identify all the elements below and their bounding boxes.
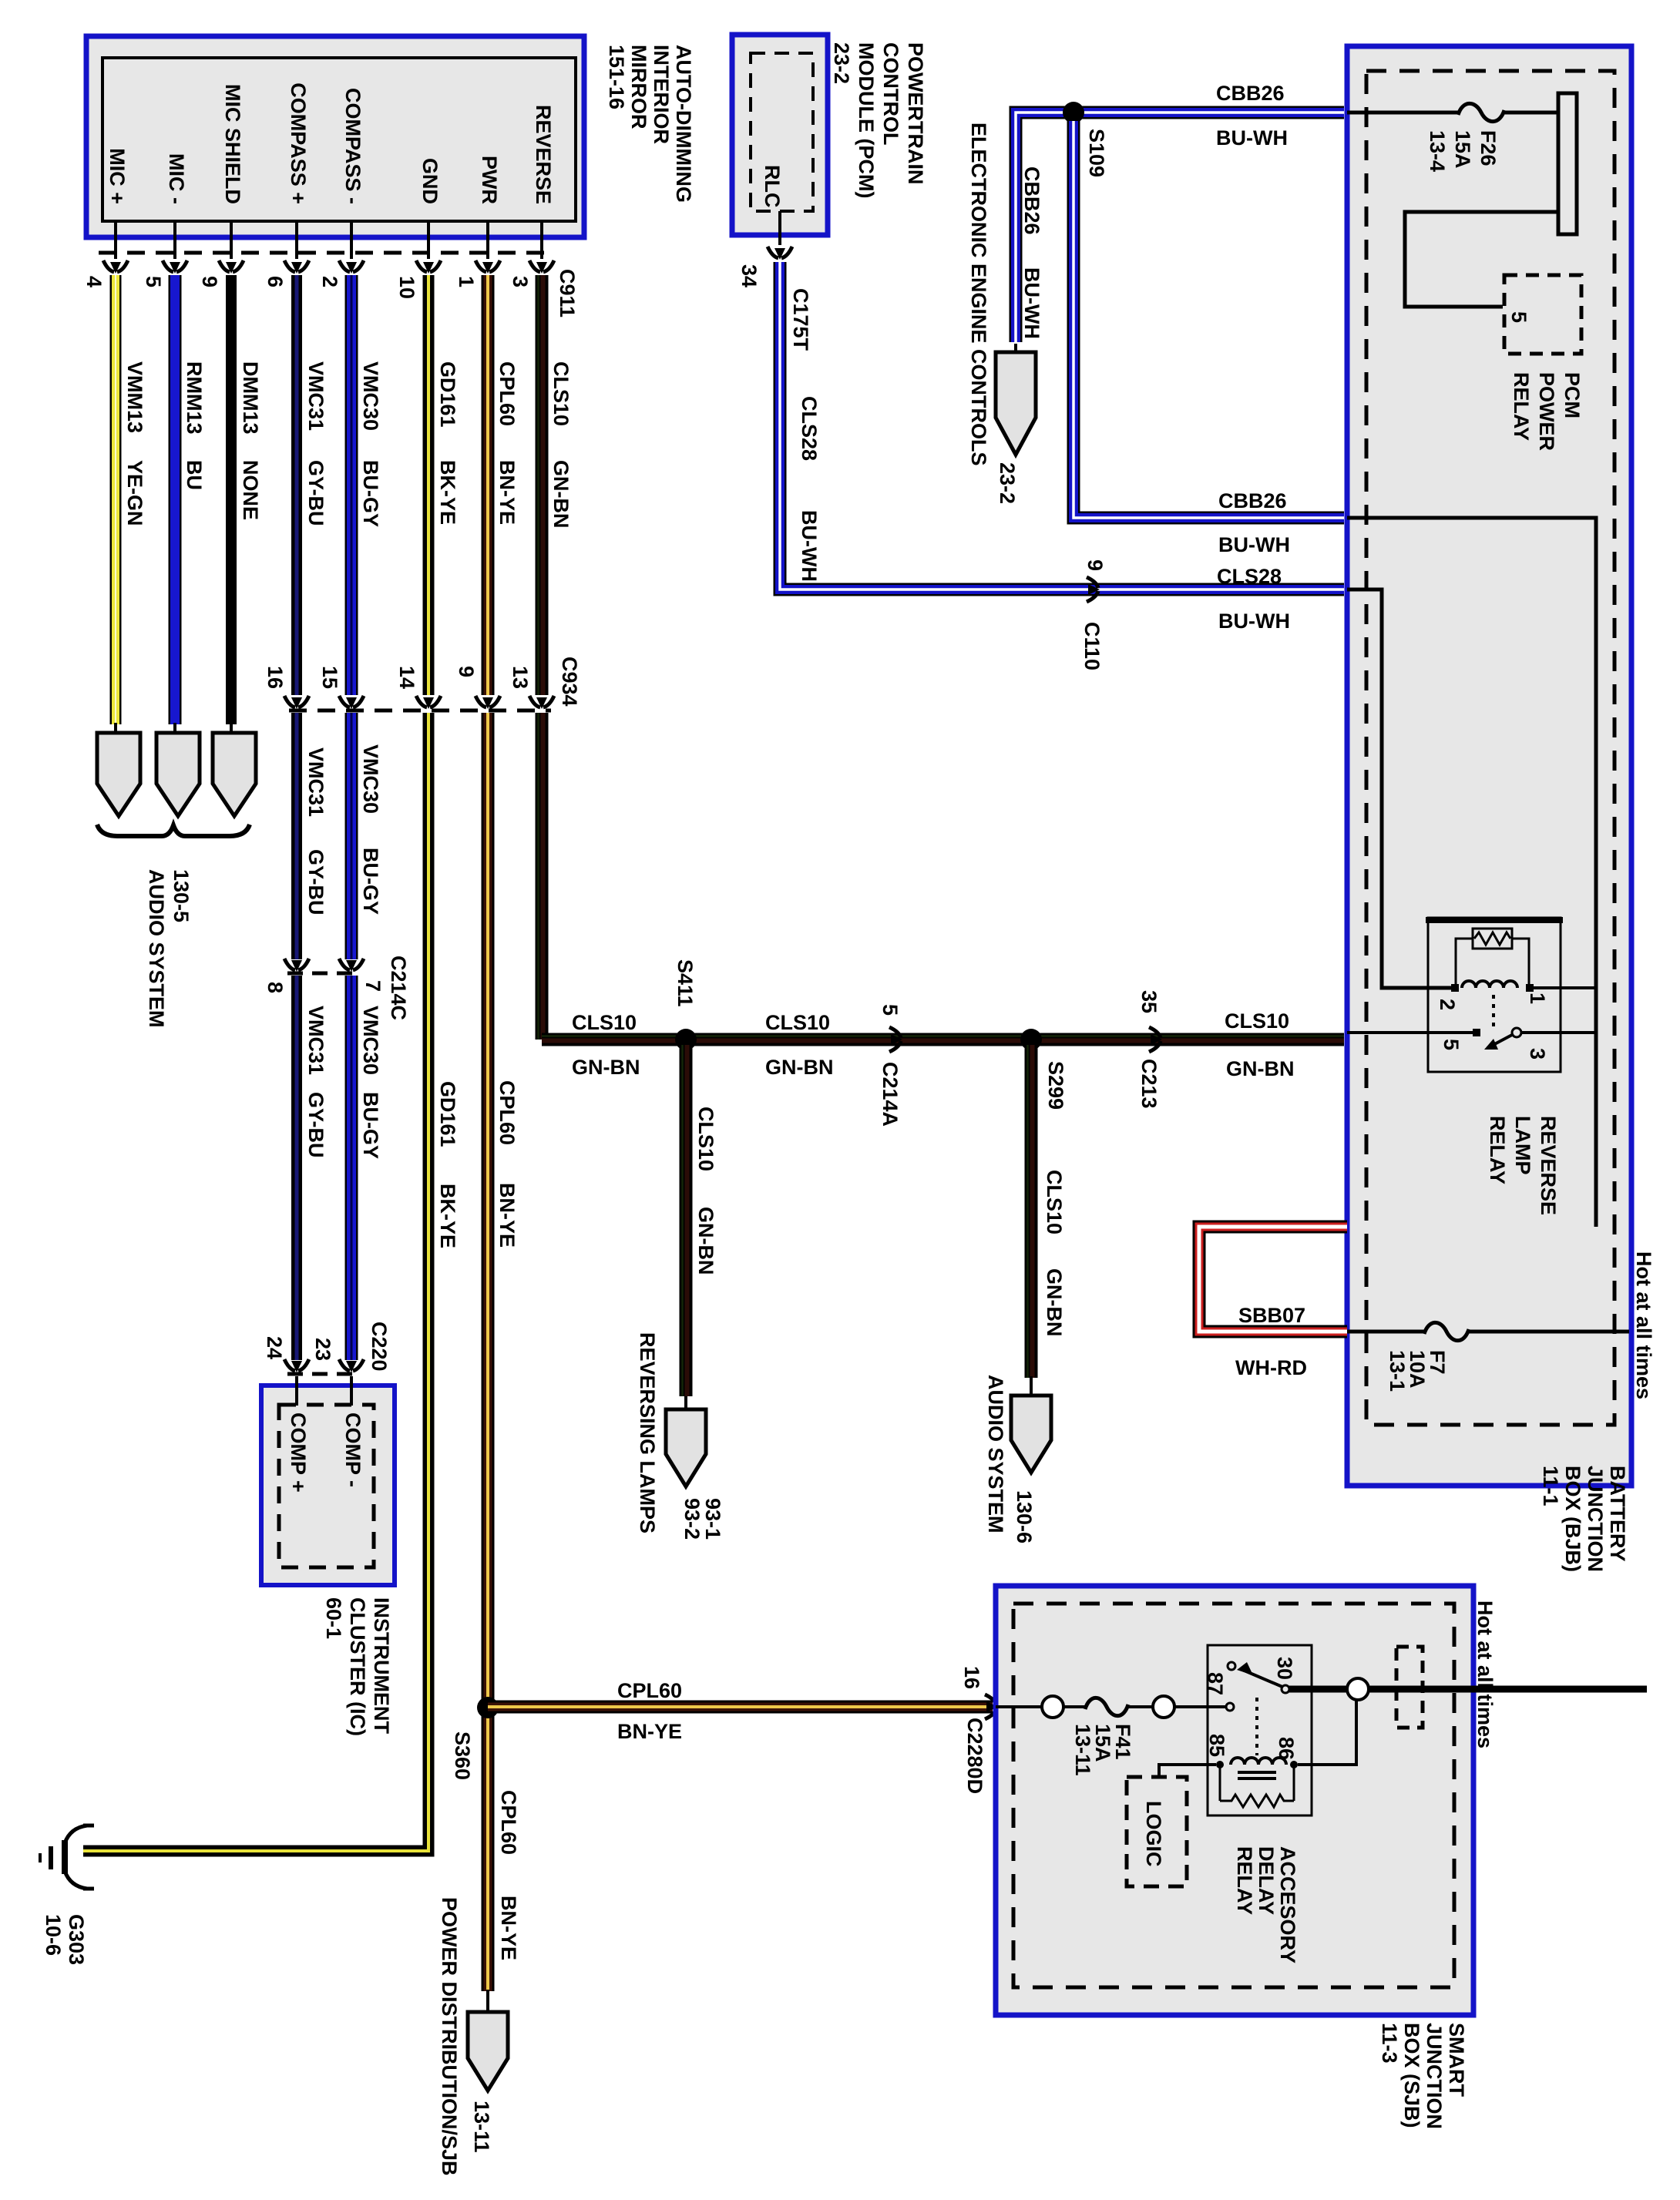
svg-text:CPL60: CPL60 [497,1790,520,1855]
svg-text:RLC: RLC [761,165,784,208]
connector arrow C934 wire x=633 [475,696,500,707]
terminal to audio system (VMM13) [97,733,140,816]
svg-text:WH-RD: WH-RD [1235,1356,1307,1379]
LOGIC dashed box [1127,1777,1187,1886]
ADR switch [1226,1703,1234,1711]
module box: auto-dimming interior mirror [86,36,584,237]
svg-text:GD161: GD161 [436,361,459,428]
svg-text:GN-BN: GN-BN [549,460,573,529]
wire CBB26 BU-WH second run from S109 to BJB [1074,121,1344,518]
svg-text:BOX (SJB): BOX (SJB) [1400,2023,1423,2128]
svg-text:CPL60: CPL60 [496,1080,519,1145]
svg-text:87: 87 [1204,1672,1227,1695]
svg-text:RMM13: RMM13 [183,361,206,435]
svg-text:11-1: 11-1 [1539,1466,1562,1506]
wire GD161 run to ground G303 [83,1845,428,1851]
svg-text:10: 10 [395,276,418,299]
svg-text:CBB26: CBB26 [1218,489,1287,512]
mirror pin stub wire x=227 [173,221,176,259]
svg-text:CLS28: CLS28 [1217,565,1282,588]
svg-text:AUDIO SYSTEM: AUDIO SYSTEM [984,1375,1007,1533]
svg-text:30: 30 [1273,1657,1296,1680]
wire VMC31 seg3 [291,976,302,1360]
svg-text:34: 34 [738,264,761,287]
bus bar [1558,93,1577,234]
IC dashed internal box [279,1405,374,1567]
svg-text:3: 3 [1526,1048,1549,1060]
svg-text:BU: BU [183,460,206,490]
wire CLS10 horizontal run to BJB [542,1033,1344,1046]
svg-text:BU-WH: BU-WH [1218,610,1290,633]
connector arrow C911 pin wire x=300 [219,260,244,272]
lead [684,1396,687,1410]
BJB internal wire F7 to hot bus [1469,1330,1629,1334]
svg-text:BN-YE: BN-YE [496,460,519,525]
svg-text:5: 5 [1440,1039,1463,1050]
SJB eyelet 3 [1347,1678,1369,1700]
SJB internal wire F41 to relay 87 [1128,1705,1227,1708]
svg-text:130-5: 130-5 [170,869,193,922]
svg-text:23-2: 23-2 [996,462,1019,504]
PCM power relay dashed box [1504,275,1581,354]
BJB internal wire CLS28 to relay coil pin 2 [1347,589,1452,988]
svg-text:BU-WH: BU-WH [798,510,821,582]
PCM output stub [778,211,781,245]
svg-text:RELAY: RELAY [1510,372,1533,441]
relay actuator dotted link [1492,995,1495,1028]
svg-text:60-1: 60-1 [322,1597,345,1639]
svg-text:11-3: 11-3 [1378,2023,1401,2064]
svg-text:LOGIC: LOGIC [1142,1801,1165,1867]
svg-text:VMM13: VMM13 [123,361,146,433]
connector arrow C911 pin wire x=703 [529,260,554,272]
lead to EEC terminal [1014,344,1017,353]
connector arrow C214C wire VMC30 [339,959,364,970]
connector arrow C911 pin wire x=556 [416,260,441,272]
ADR actuator dotted link [1255,1698,1258,1755]
svg-text:GY-BU: GY-BU [304,849,328,915]
connector C214C dashed line [287,972,361,976]
svg-text:MIRROR: MIRROR [627,45,650,129]
svg-text:85: 85 [1205,1734,1228,1757]
svg-text:CLS10: CLS10 [694,1107,717,1171]
connector arrow C214C wire VMC31 [284,959,309,970]
SJB eyelet 1 [1042,1696,1063,1718]
wire CLS10 seg2 [536,713,549,1040]
BJB dashed internal border [1366,71,1614,1425]
svg-text:BU-WH: BU-WH [1216,126,1288,149]
wire CLS28 BU-WH from PCM to BJB [780,262,1344,589]
svg-text:GN-BN: GN-BN [1226,1057,1295,1080]
svg-text:1: 1 [1526,993,1549,1004]
svg-text:VMC31: VMC31 [304,747,328,817]
svg-text:MIC +: MIC + [106,148,129,204]
svg-text:CPL60: CPL60 [617,1679,682,1702]
svg-text:POWER DISTRIBUTION/SJB: POWER DISTRIBUTION/SJB [438,1897,461,2176]
junction S360 [477,1697,499,1718]
wire GD161 BK-YE seg1 (pin 10) [423,275,435,695]
PCM RLC dashed box [751,53,813,211]
BJB internal wire CBB26 feed to reverse lamp relay [1347,518,1596,1227]
SJB output connector dashed [1396,1647,1423,1728]
svg-text:COMPASS +: COMPASS + [287,82,310,204]
BJB internal wire SBB07 to F7 [1347,1330,1424,1334]
mirror pin stub wire x=150 [114,221,117,259]
module box: powertrain control module (PCM) [732,35,828,235]
svg-text:INTERIOR: INTERIOR [650,45,673,144]
terminal to audio system (DMM13) [213,733,256,816]
junction S299 [1020,1029,1042,1050]
svg-text:MODULE (PCM): MODULE (PCM) [855,42,878,198]
SJB dashed internal border [1013,1604,1454,1987]
terminal to electronic engine controls [996,352,1036,455]
relay pin3 wire [1521,1031,1596,1034]
connector arrow C911 pin wire x=150 [103,260,128,272]
IC lead COMP+ [295,1376,298,1406]
svg-text:DMM13: DMM13 [239,361,262,435]
svg-text:LAMP: LAMP [1511,1116,1534,1175]
svg-text:CBB26: CBB26 [1020,166,1043,235]
svg-text:9: 9 [1084,559,1107,571]
svg-text:151-16: 151-16 [605,45,628,109]
wire VMC31 GY-BU seg1 (pin 6) [291,275,302,695]
svg-text:RELAY: RELAY [1486,1116,1509,1184]
connector C220 dashed line [287,1372,361,1376]
connector arrow C175T [768,247,792,258]
connector arrow C911 pin wire x=227 [163,260,187,272]
svg-text:JUNCTION: JUNCTION [1423,2023,1446,2129]
svg-text:ACCESORY: ACCESORY [1276,1846,1299,1963]
svg-text:GY-BU: GY-BU [304,1092,328,1158]
svg-text:14: 14 [395,666,418,689]
svg-text:PWR: PWR [478,156,501,204]
svg-text:CONTROL: CONTROL [879,42,902,145]
svg-text:BATTERY: BATTERY [1606,1466,1629,1562]
terminal to audio system (CLS10) [1011,1396,1051,1473]
svg-text:MIC -: MIC - [165,153,188,204]
connector arrow C911 pin wire x=633 [475,260,500,272]
SJB internal wire C2280D to F41 [996,1705,1085,1708]
svg-text:BU-WH: BU-WH [1020,267,1043,339]
wire VMM13 YE-GN (pin 4) [110,275,122,724]
wire VMC31 seg2 [291,713,302,959]
svg-text:PCM: PCM [1561,372,1584,418]
ADR resistor [1220,1768,1294,1801]
wire CPL60 BN-YE seg1 (pin 1) [482,275,495,695]
svg-text:DELAY: DELAY [1255,1846,1278,1915]
lead to terminal VMM13 [114,723,117,735]
svg-text:2: 2 [1436,999,1459,1010]
svg-text:CLS28: CLS28 [798,396,821,461]
relay suppression resistor [1473,929,1512,949]
svg-text:GN-BN: GN-BN [765,1056,834,1079]
svg-text:5: 5 [142,276,165,287]
connector arrow C214A [889,1027,901,1052]
relay: reverse lamp relay [1428,918,1561,1072]
terminal to power distribution/SJB [468,2012,508,2091]
svg-text:COMP -: COMP - [341,1412,365,1487]
svg-text:13-11: 13-11 [1071,1724,1094,1776]
svg-text:93-2: 93-2 [680,1498,704,1540]
mirror pin stub wire x=633 [486,221,489,259]
mirror pin stub wire x=703 [540,221,543,259]
svg-text:MIC SHIELD: MIC SHIELD [221,84,244,204]
svg-text:Hot at all times: Hot at all times [1632,1251,1655,1399]
svg-text:BK-YE: BK-YE [436,1184,459,1248]
svg-text:BU-GY: BU-GY [359,460,382,527]
svg-text:C175T: C175T [789,288,812,351]
svg-text:93-1: 93-1 [701,1498,724,1540]
svg-text:CLS10: CLS10 [549,361,573,426]
svg-text:BU-WH: BU-WH [1218,533,1290,556]
connector C934 dashed line [289,709,551,713]
fuse F41 15A [1085,1698,1128,1715]
connector arrow C911 pin wire x=456 [339,260,364,272]
svg-text:5: 5 [879,1004,902,1016]
svg-text:35: 35 [1137,990,1161,1013]
junction S109 [1063,102,1084,123]
svg-text:Hot at all times: Hot at all times [1473,1600,1497,1748]
svg-text:BN-YE: BN-YE [617,1720,682,1743]
svg-text:9: 9 [198,276,221,287]
svg-text:8: 8 [264,982,287,993]
wire GD161 seg2 [423,713,435,1851]
wire VMC30 seg2 [345,713,358,959]
connector arrow C220 wire VMC30 [339,1359,364,1371]
mirror pin stub wire x=385 [295,221,298,259]
box: smart junction box (SJB) [996,1586,1473,2015]
svg-text:3: 3 [509,276,532,287]
svg-text:NONE: NONE [239,460,262,520]
svg-text:BU-GY: BU-GY [359,1092,382,1159]
svg-text:5: 5 [1507,311,1530,323]
svg-text:C934: C934 [558,657,581,707]
connector arrow C220 wire VMC31 [284,1359,309,1371]
mirror pin stub wire x=556 [427,221,430,259]
wire CPL60 seg2 [482,713,495,1991]
svg-text:CLS10: CLS10 [1225,1009,1289,1033]
svg-text:COMP +: COMP + [287,1412,310,1493]
svg-text:CLS10: CLS10 [765,1011,830,1034]
svg-text:CBB26: CBB26 [1216,82,1285,105]
svg-text:16: 16 [264,666,287,689]
svg-text:VMC31: VMC31 [304,1006,328,1075]
svg-text:4: 4 [82,276,106,287]
terminal to audio system (RMM13) [156,733,200,816]
svg-text:AUDIO SYSTEM: AUDIO SYSTEM [145,869,168,1028]
module box: instrument cluster (IC) [261,1385,395,1585]
svg-text:REVERSE: REVERSE [532,105,555,204]
svg-text:CPL60: CPL60 [496,361,519,426]
svg-text:130-6: 130-6 [1013,1490,1036,1543]
svg-text:15A: 15A [1451,130,1474,169]
svg-text:POWERTRAIN: POWERTRAIN [904,42,927,185]
svg-text:C2280D: C2280D [963,1718,986,1794]
svg-text:BOX (BJB): BOX (BJB) [1561,1466,1584,1572]
svg-text:VMC30: VMC30 [359,744,382,814]
wire SBB07 WH-RD loop [1199,1227,1347,1332]
svg-text:C220: C220 [368,1322,391,1372]
ADR coil [1231,1758,1286,1765]
svg-text:SBB07: SBB07 [1238,1304,1305,1327]
svg-text:VMC31: VMC31 [304,361,328,431]
svg-text:INSTRUMENT: INSTRUMENT [370,1597,393,1734]
svg-text:JUNCTION: JUNCTION [1584,1466,1607,1572]
svg-text:CLS10: CLS10 [572,1011,637,1034]
svg-text:23: 23 [311,1338,334,1361]
connector arrow C911 pin wire x=385 [284,260,309,272]
svg-text:C213: C213 [1137,1059,1161,1109]
wire CLS10 branch to audio system [1025,1045,1038,1378]
svg-text:GN-BN: GN-BN [694,1207,717,1275]
connector arrow C934 wire x=385 [284,696,309,707]
svg-text:S109: S109 [1085,129,1108,177]
svg-text:YE-GN: YE-GN [123,460,146,526]
svg-text:S299: S299 [1044,1061,1067,1110]
SJB output wire (hot feed) [1289,1686,1647,1693]
relay coil [1462,981,1517,988]
connector arrow C934 wire x=703 [529,696,554,707]
svg-text:AUTO-DIMMING: AUTO-DIMMING [672,45,695,203]
fuse F7 10A [1424,1322,1469,1340]
svg-text:S411: S411 [674,959,697,1007]
svg-text:GN-BN: GN-BN [572,1056,640,1079]
svg-text:REVERSE: REVERSE [1537,1116,1560,1215]
wire DMM13 NONE (pin 9) [226,275,237,724]
ADR 85 wire to logic [1159,1765,1216,1778]
svg-text:GD161: GD161 [436,1081,459,1147]
BJB internal wire to F26 [1347,111,1458,115]
svg-text:BN-YE: BN-YE [496,1183,519,1248]
relay: accessory delay relay box [1208,1645,1312,1815]
svg-text:BN-YE: BN-YE [497,1896,520,1960]
svg-text:F26: F26 [1477,130,1500,166]
svg-text:C911: C911 [556,269,579,317]
svg-text:POWER: POWER [1535,372,1558,451]
terminal to reversing lamps [666,1409,706,1486]
svg-text:GY-BU: GY-BU [304,460,328,526]
svg-text:S360: S360 [451,1731,474,1780]
svg-text:SMART: SMART [1445,2023,1468,2097]
wire CPL60 branch to SJB (C2280D) [488,1701,993,1714]
brace audio system group [97,825,250,836]
svg-text:13: 13 [509,666,532,689]
lead to terminal DMM13 [230,723,233,735]
svg-text:C214A: C214A [879,1062,902,1127]
svg-text:2: 2 [318,276,341,287]
BJB internal wire bus bar to PCM power relay pin 5 [1405,212,1558,307]
box: battery junction box (BJB) [1347,46,1631,1486]
fuse F26 15A [1458,103,1504,121]
mirror pin stub wire x=456 [350,221,353,259]
wire CLS10 branch to reversing lamps [680,1045,693,1396]
wire CLS10 GN-BN seg1 (pin 3) [536,275,549,695]
connector arrow C110 [1087,577,1098,602]
svg-text:REVERSING LAMPS: REVERSING LAMPS [636,1332,659,1533]
svg-text:6: 6 [264,276,287,287]
svg-text:GND: GND [418,158,442,204]
svg-text:CLS10: CLS10 [1043,1170,1066,1234]
svg-text:9: 9 [455,666,478,677]
svg-text:COMPASS -: COMPASS - [341,88,365,204]
connector arrow C213 [1149,1027,1161,1052]
svg-text:G303: G303 [65,1914,88,1965]
svg-text:1: 1 [455,276,478,287]
svg-text:10-6: 10-6 [42,1914,65,1956]
lead to terminal RMM13 [173,723,176,735]
wire VMC30 seg3 [345,976,358,1360]
relay switch [1473,1029,1480,1036]
svg-text:ELECTRONIC ENGINE CONTROLS: ELECTRONIC ENGINE CONTROLS [967,123,990,466]
svg-text:CLUSTER (IC): CLUSTER (IC) [346,1597,369,1736]
stub to relay pin 1 [1532,986,1596,989]
wire VMC30 BU-GY seg1 (pin 2) [345,275,358,695]
connector arrow C934 wire x=556 [416,696,441,707]
wire F26 to bus bar [1504,111,1558,115]
svg-text:RELAY: RELAY [1233,1846,1256,1915]
ground symbol G303 [40,1825,94,1889]
svg-text:13-4: 13-4 [1426,130,1449,172]
BJB internal wire CLS10 to relay pin 5 [1347,1031,1474,1034]
lead to power distribution terminal [486,1990,489,2013]
svg-text:GN-BN: GN-BN [1043,1268,1066,1337]
svg-text:VMC30: VMC30 [359,361,382,431]
junction S411 [675,1029,697,1050]
svg-text:24: 24 [263,1336,286,1359]
svg-text:BK-YE: BK-YE [436,460,459,525]
svg-text:13-1: 13-1 [1386,1350,1409,1392]
svg-text:23-2: 23-2 [830,42,853,84]
SJB eyelet 2 [1153,1696,1174,1718]
svg-text:C110: C110 [1080,622,1104,670]
ADR 86 wire [1298,1692,1356,1765]
svg-text:15: 15 [318,666,341,689]
svg-text:VMC30: VMC30 [359,1006,382,1075]
wire RMM13 BU (pin 5) [169,275,182,724]
svg-text:7: 7 [361,980,385,992]
IC lead COMP- [350,1376,353,1406]
svg-text:16: 16 [960,1666,983,1689]
connector C911 dashed line [99,251,551,255]
connector arrow C934 wire x=456 [339,696,364,707]
mirror pin stub wire x=300 [230,221,233,259]
svg-text:BU-GY: BU-GY [359,848,382,915]
wire CBB26 BU-WH (F26 feed) with branch corner [1016,113,1344,342]
svg-text:C214C: C214C [387,956,410,1020]
lead [1030,1376,1033,1396]
connector arrow C2280D [985,1695,996,1719]
svg-text:13-11: 13-11 [470,2101,493,2153]
